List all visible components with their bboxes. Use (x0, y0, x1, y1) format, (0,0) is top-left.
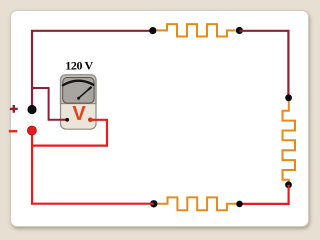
battery terminal + (black dot) (27, 105, 36, 114)
dial scale arc (63, 81, 94, 86)
wire: + terminal up and across top to R1 (32, 31, 153, 109)
needle arrowhead (88, 87, 91, 90)
minus sign (9, 130, 17, 132)
resistor R1 (top) (153, 24, 236, 36)
wire: voltmeter lead from + side (maroon) (32, 88, 67, 120)
node B (right end of R1) (236, 27, 243, 34)
resistor R2 (right side, vertical) (283, 98, 296, 185)
svg-text:V: V (72, 103, 86, 125)
node E (right end of R3) (236, 201, 243, 208)
voltmeter terminal right (red) (88, 118, 93, 123)
wire: R1 to top-right corner down to R2 (239, 31, 288, 98)
resistor R3 (bottom) (154, 197, 240, 210)
needle pivot (77, 97, 80, 100)
plus sign (10, 105, 18, 113)
node C (top of R2) (285, 94, 292, 101)
voltmeter U1 body (61, 75, 97, 129)
voltmeter terminal left (black) (65, 118, 69, 122)
svg-text:120 V: 120 V (65, 59, 93, 73)
wire: R3 left to bottom-left corner up to - terminal (32, 131, 154, 204)
node D (bottom of R2) (285, 181, 292, 188)
node A (left end of R1) (149, 27, 156, 34)
needle (79, 87, 92, 98)
voltmeter dial (63, 78, 94, 104)
wire: R2 down to bottom-right corner and left to R3 (240, 185, 289, 204)
wire: voltmeter lead to - side (red) (33, 120, 107, 146)
node F (left end of R3) (150, 200, 157, 207)
battery terminal - (red dot) (28, 126, 37, 135)
